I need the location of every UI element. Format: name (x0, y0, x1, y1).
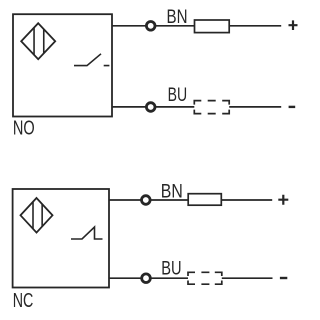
svg-text:BU: BU (168, 85, 188, 106)
plus terminal (NC row) (278, 195, 288, 205)
resistor load (NC row) (188, 194, 221, 206)
wire BU (NO row) (112, 106, 282, 108)
svg-text:BN: BN (161, 181, 183, 202)
NC switch contact symbol (71, 227, 103, 239)
proximity sensor diamond symbol (NO) (21, 23, 55, 59)
sensor body box (NC circuit) (13, 189, 109, 288)
wire BN (NO row) (112, 25, 282, 27)
wire BN (NC row) (109, 199, 273, 201)
sensor body box (NO circuit) (13, 14, 112, 116)
minus terminal (NO row) (289, 106, 296, 108)
svg-text:NO: NO (13, 117, 35, 139)
dashed optional load box (NO row) (194, 101, 229, 114)
plus terminal (NO row) (289, 20, 298, 30)
svg-text:NC: NC (13, 290, 34, 312)
svg-text:BN: BN (167, 7, 188, 28)
svg-text:BU: BU (161, 259, 181, 280)
diamond inner line left (NO) (33, 28, 35, 55)
proximity sensor diamond symbol (NC) (21, 198, 53, 233)
minus terminal (NC row) (280, 277, 287, 279)
dashed optional load box (NC row) (188, 272, 222, 284)
resistor load (NO row) (195, 20, 230, 33)
NO switch contact symbol (74, 54, 109, 66)
diamond inner line right (NO) (43, 29, 45, 54)
diamond inner line right (NC) (41, 204, 43, 226)
terminal circle BN (NC) (142, 196, 151, 205)
diamond inner line left (NC) (32, 202, 34, 229)
terminal circle BN (NO) (146, 22, 155, 31)
terminal circle BU (NO) (146, 103, 155, 112)
terminal circle BU (NC) (142, 274, 151, 283)
wire BU (NC row) (109, 277, 273, 279)
